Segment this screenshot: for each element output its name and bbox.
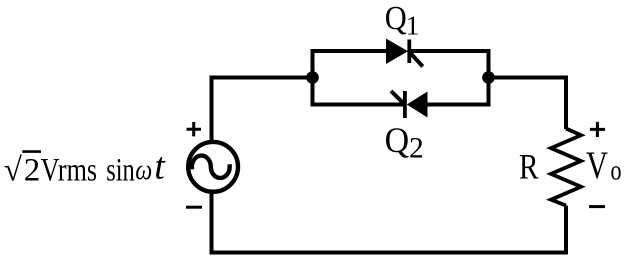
resistor R zigzag [551, 129, 581, 206]
wire source top lead and left horizontal to node A [212, 78, 313, 143]
node A (left junction dot) [306, 71, 319, 84]
svg-text:sin: sin [106, 153, 135, 189]
wire top rail left segment [311, 49, 387, 53]
plus sign at Vo top [590, 122, 605, 137]
svg-text:R: R [519, 147, 539, 187]
node B (right junction dot) [482, 71, 495, 84]
thyristor Q1 gate lead [409, 52, 423, 67]
thyristor Q2 gate lead [391, 91, 405, 105]
svg-text:Vrms: Vrms [41, 153, 98, 189]
minus sign at source bottom [186, 206, 202, 209]
svg-text:2: 2 [409, 132, 424, 164]
wire right vertical above resistor [564, 76, 568, 130]
svg-text:2: 2 [24, 153, 41, 189]
svg-text:Q: Q [385, 0, 407, 37]
wire bottom rail left segment [311, 103, 405, 107]
thyristor Q1 cathode bar [407, 40, 411, 64]
wire bottom rail right segment [427, 103, 491, 107]
wire right horizontal from node B [489, 76, 567, 80]
wire top rail right segment [411, 49, 491, 53]
svg-text:√: √ [4, 153, 23, 189]
svg-text:1: 1 [406, 11, 420, 41]
AC source circle [188, 142, 238, 192]
svg-text:t: t [154, 146, 166, 188]
minus sign at Vo bottom [589, 205, 605, 208]
svg-text:ω: ω [135, 153, 152, 186]
wire block left vertical [311, 49, 315, 107]
plus sign at source top [187, 122, 202, 136]
svg-text:o: o [611, 154, 622, 186]
thyristor Q2 triangle (anode arrow pointing left) [407, 92, 428, 118]
svg-text:Q: Q [385, 120, 410, 160]
thyristor Q1 triangle (anode arrow pointing right) [386, 39, 408, 65]
wire right vertical below resistor [564, 206, 568, 253]
AC source sine wave [192, 156, 230, 178]
svg-text:V: V [586, 144, 608, 187]
wire bottom return [210, 251, 569, 255]
source value label radical vinculum [22, 150, 41, 153]
thyristor Q2 cathode bar [403, 91, 407, 118]
wire source bottom lead [210, 192, 214, 253]
wire block right vertical [487, 49, 491, 107]
